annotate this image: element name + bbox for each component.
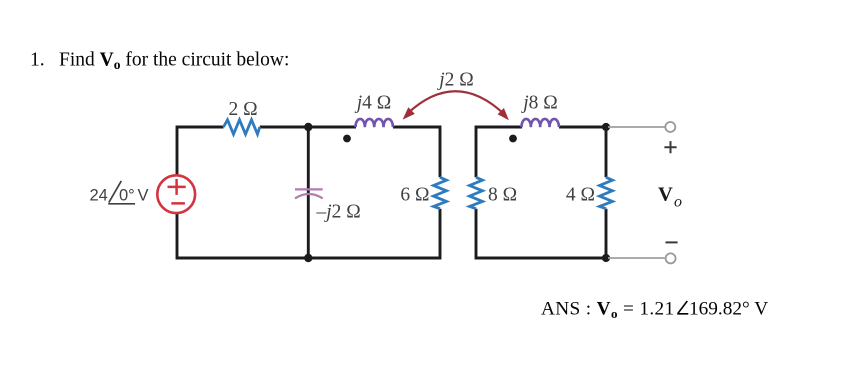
inductor L1 j4Ω (top wire of loop 1)	[355, 119, 392, 127]
wire: loop 1 outline (left, top, right, bottom)	[177, 127, 606, 258]
voltage source VS 24∠0°V	[157, 175, 195, 213]
node C (junction top right)	[602, 123, 610, 131]
resistor 6Ω (right wire of loop 1, vertical)	[434, 177, 447, 208]
svg-text:6 Ω: 6 Ω	[400, 185, 429, 206]
label 24∠0°V	[90, 181, 149, 205]
wire: output lead top (gray)	[608, 126, 665, 128]
polarity dot L1	[343, 135, 351, 143]
inductor L2 j8Ω (top wire of loop 2)	[521, 119, 558, 127]
node D (junction bottom right)	[602, 254, 610, 262]
wire: output lead bottom (gray)	[608, 257, 665, 259]
terminal top (open circle)	[665, 122, 675, 132]
angle symbol (drawn)	[677, 301, 688, 314]
svg-text:2 Ω: 2 Ω	[228, 99, 257, 120]
answer text: ANS : Vo = 1.21∠169.82° V	[541, 299, 768, 322]
label − (output polarity)	[666, 241, 678, 243]
svg-text:4 Ω: 4 Ω	[566, 185, 595, 206]
svg-text:j4 Ω: j4 Ω	[354, 93, 392, 114]
svg-text:o: o	[674, 194, 682, 211]
svg-text:169.82° V: 169.82° V	[689, 299, 768, 320]
wire: middle vertical branch (capacitor branch)	[307, 127, 310, 258]
svg-text:ANS : Vo = 1.21: ANS : Vo = 1.21	[541, 299, 675, 322]
svg-text:8 Ω: 8 Ω	[488, 185, 517, 206]
svg-text:Find Vo for the circuit below:: Find Vo for the circuit below:	[59, 50, 289, 73]
resistor 4Ω (right wire of loop 2, vertical)	[600, 177, 613, 208]
node A (junction top middle)	[304, 123, 312, 131]
svg-text:j2 Ω: j2 Ω	[436, 70, 474, 91]
label + (output polarity)	[664, 141, 676, 153]
svg-text:0°: 0°	[119, 187, 135, 205]
node B (junction bottom middle)	[304, 254, 312, 262]
capacitor C (-j2Ω) on middle branch	[295, 189, 323, 198]
mutual coupling arrow j2Ω	[403, 91, 509, 120]
polarity dot L2	[509, 135, 517, 143]
title: 1. Find Vo for the circuit below:	[30, 50, 289, 73]
svg-text:V: V	[658, 184, 673, 206]
resistor 2Ω (horizontal, top wire of loop 1)	[224, 120, 260, 134]
svg-text:V: V	[138, 187, 149, 205]
svg-text:24: 24	[90, 187, 108, 205]
svg-text:–j2 Ω: –j2 Ω	[316, 202, 361, 223]
terminal bottom (open circle)	[666, 253, 676, 263]
svg-text:j8 Ω: j8 Ω	[520, 93, 558, 114]
svg-text:1.: 1.	[30, 50, 45, 71]
wire: loop 2 outline	[476, 127, 606, 258]
resistor 8Ω (left wire of loop 2, vertical)	[470, 177, 483, 208]
